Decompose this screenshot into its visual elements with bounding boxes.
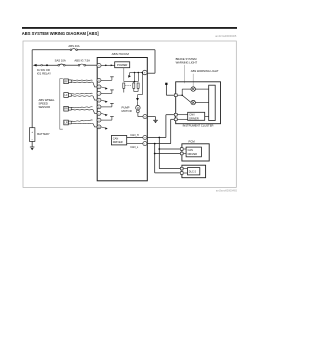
svg-text:CAN: CAN (188, 149, 193, 152)
wire pin P internal arrow (101, 100, 105, 101)
svg-text:MOTOR: MOTOR (122, 109, 132, 113)
pin sensor P (97, 98, 101, 102)
wire RR signal pair (71, 107, 92, 108)
wire pin F internal (130, 72, 143, 74)
wire W1 riser to pin F (154, 50, 156, 73)
wire pin B to ground (147, 116, 155, 118)
leader brake warning (184, 65, 186, 83)
pin PCM CAN_H (180, 148, 183, 151)
wire pin E internal T (101, 106, 112, 108)
ground motor (153, 119, 158, 121)
sensor LF (64, 93, 69, 98)
pin CAN_L (143, 142, 147, 146)
sensor RF (64, 79, 69, 84)
block CAN DRIVER in HU/CM (111, 136, 126, 145)
pin sensor I (97, 91, 101, 95)
wire pin I internal T (101, 92, 112, 94)
title rule (22, 27, 237, 29)
wire RF signal pair (71, 79, 92, 81)
block CAN DRIVER in cluster (188, 112, 205, 120)
valve ellipsis dashes (125, 85, 132, 87)
svg-text:IG1 RELAY: IG1 RELAY (37, 71, 51, 75)
pin cluster CAN_H (174, 113, 177, 116)
PCM box (182, 144, 209, 161)
svg-text:CAN_L: CAN_L (130, 146, 139, 149)
svg-text:SAS 10A: SAS 10A (55, 58, 66, 62)
wire pin V internal T (101, 119, 112, 121)
valve arrow at line end (129, 73, 131, 76)
svg-text:BATTERY: BATTERY (37, 132, 50, 136)
junction CAN_L (154, 143, 156, 145)
svg-text:SPEED: SPEED (39, 102, 48, 106)
svg-text:am3zzw00000465: am3zzw00000465 (216, 188, 238, 192)
arrow to IG SW (33, 64, 37, 67)
svg-text:ABS WHEEL: ABS WHEEL (39, 98, 56, 102)
instrument cluster box (176, 82, 221, 124)
wire can driver to panel (205, 115, 209, 117)
wire CAN_H down to PCM and DLC (158, 138, 160, 169)
pin sensor Q (97, 78, 101, 82)
wire PCM pins (183, 148, 186, 150)
ABS HU/CM unit box (97, 58, 147, 181)
wire LF signal pair (71, 92, 92, 95)
pin DLC CAN_L (180, 172, 183, 175)
svg-text:am3zzw00000465: am3zzw00000465 (215, 34, 237, 38)
node brake switch terminal (165, 83, 167, 85)
svg-text:−: − (31, 138, 33, 142)
pin cluster CAN_L (174, 118, 177, 121)
svg-text:RF: RF (64, 80, 68, 83)
pin sensor C (97, 111, 101, 115)
svg-text:+: + (31, 130, 33, 134)
wire W1 B+ horizontal (32, 49, 70, 51)
svg-text:DLC-2: DLC-2 (189, 171, 197, 174)
svg-text:Q: Q (98, 80, 100, 82)
wire battery bus vertical (31, 50, 33, 128)
svg-text:BRAKE SYSTEM: BRAKE SYSTEM (176, 57, 198, 61)
battery B1 (30, 128, 35, 142)
svg-text:PUMP: PUMP (122, 106, 130, 110)
wire LR signal pair (71, 120, 92, 122)
wire motor to pin B (137, 113, 139, 117)
svg-text:PCM: PCM (189, 140, 196, 144)
svg-text:ABS IG 7.5A: ABS IG 7.5A (74, 58, 90, 62)
junction CAN_H (158, 137, 160, 139)
svg-text:ABS HU/CM: ABS HU/CM (112, 52, 130, 56)
pump feed arrow (137, 95, 139, 99)
wire terminal to cluster pin (165, 85, 167, 95)
wire CAN_H riser to cluster (165, 115, 167, 138)
valve supply rail (124, 81, 139, 83)
wire cluster CAN_H (177, 114, 188, 116)
sensor group bracket (60, 79, 63, 130)
sensor RR (64, 106, 69, 111)
block CAN DRIVER in PCM (186, 147, 201, 157)
DLC-2 box (182, 165, 206, 178)
wire battery to ground (31, 141, 33, 147)
junction CAN_L PCM (154, 153, 156, 155)
svg-text:ABS WARNING LIGHT: ABS WARNING LIGHT (191, 69, 219, 73)
wire W2 IG feed (36, 64, 58, 66)
junction CAN_H PCM (158, 148, 160, 150)
wire CAN_L riser to cluster (170, 119, 172, 143)
wire pin O internal arrow (101, 87, 105, 88)
svg-text:SENSOR: SENSOR (39, 105, 51, 109)
solenoid valve coil 3 (137, 83, 139, 88)
wire coil join (134, 91, 138, 93)
pump motor M1 (136, 106, 140, 110)
pin DLC CAN_H (180, 167, 183, 170)
svg-text:DRIVER: DRIVER (113, 140, 123, 144)
svg-text:WARNING LIGHT: WARNING LIGHT (176, 61, 198, 65)
lamp ABS warning light (191, 87, 195, 91)
lamp brake system warning light (191, 100, 195, 104)
svg-text:LR: LR (65, 122, 68, 125)
svg-text:M: M (137, 107, 139, 110)
sensor LR (64, 120, 69, 125)
svg-text:DRIVER: DRIVER (188, 153, 198, 156)
pin cluster warn input (174, 94, 177, 97)
pin sensor E (97, 105, 101, 109)
leader abs warning (192, 74, 194, 87)
pin PCM CAN_L (180, 152, 183, 155)
wire valve feed risers (134, 73, 136, 82)
svg-text:ABS 40A: ABS 40A (68, 44, 79, 48)
wire POWER to valve rail (123, 68, 125, 82)
wire CAN_L trunk (147, 143, 170, 145)
pin sensor O (97, 85, 101, 89)
wire pump feed riser (141, 73, 143, 95)
svg-text:DRIVER: DRIVER (189, 117, 199, 120)
cluster internal panel (209, 85, 216, 120)
wire CAN driver to pin CAN_H (127, 137, 143, 139)
pin F valve power (143, 70, 148, 75)
ground battery (30, 146, 35, 148)
svg-text:CAN: CAN (189, 114, 194, 117)
solenoid valve coil 1 (123, 83, 125, 88)
pin N power (97, 63, 101, 67)
svg-text:INSTRUMENT CLUSTER: INSTRUMENT CLUSTER (183, 124, 214, 128)
pin sensor W (97, 125, 101, 129)
diagram frame (23, 41, 236, 187)
block DLC-2 inner (188, 168, 200, 175)
wire pin Q internal T (101, 79, 112, 81)
wire pin W internal arrow (101, 127, 105, 128)
wire pin N to POWER (101, 64, 115, 66)
fuse SAS 10A (58, 64, 60, 66)
block POWER (115, 62, 130, 68)
svg-text:RR: RR (64, 108, 68, 111)
solenoid valve coil 2 (133, 82, 135, 84)
wire DLC pins (183, 168, 187, 170)
connector on W2 (41, 64, 43, 66)
fuse ABS 40A (70, 49, 72, 51)
pin B motor ground (143, 115, 147, 119)
wire diagonal to abs lamp (182, 95, 191, 102)
pin CAN_H (143, 135, 147, 139)
svg-text:IG SW OR: IG SW OR (37, 68, 50, 72)
svg-text:CAN: CAN (113, 136, 119, 140)
wire CAN_H trunk (147, 137, 166, 139)
svg-text:O: O (98, 87, 100, 89)
pin sensor V (97, 118, 101, 122)
wire pin C internal arrow (101, 113, 105, 114)
wire cluster CAN_L (177, 118, 188, 120)
fuse ABS IG 7.5A (78, 64, 80, 66)
svg-text:ABS SYSTEM WIRING DIAGRAM [ABS: ABS SYSTEM WIRING DIAGRAM [ABS] (22, 31, 99, 37)
wire CAN driver to pin CAN_L (127, 143, 143, 145)
svg-text:CAN_H: CAN_H (130, 134, 139, 137)
wire CAN_L down to PCM and DLC (154, 144, 156, 173)
svg-text:POWER: POWER (117, 63, 127, 67)
wire warn input (177, 94, 182, 96)
